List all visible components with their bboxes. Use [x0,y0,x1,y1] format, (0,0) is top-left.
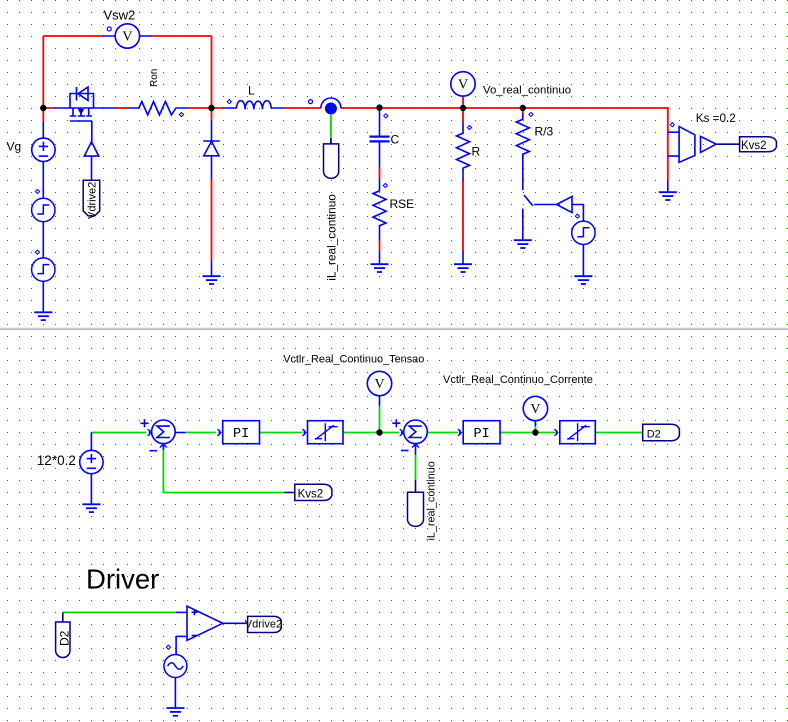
svg-text:Kvs2: Kvs2 [298,488,324,500]
svg-text:Vo_real_continuo: Vo_real_continuo [483,85,571,97]
svg-text:12*0.2: 12*0.2 [37,453,76,468]
svg-text:Vdrive2: Vdrive2 [245,619,282,631]
svg-text:iL_real_continuo: iL_real_continuo [426,461,438,540]
svg-text:Kvs2: Kvs2 [741,140,767,152]
svg-text:Vsw2: Vsw2 [104,7,136,22]
svg-text:Vg: Vg [7,140,22,154]
svg-text:Vctlr_Real_Continuo_Corrente: Vctlr_Real_Continuo_Corrente [443,374,593,386]
svg-text:D2: D2 [58,630,72,646]
svg-text:Driver: Driver [86,563,159,594]
svg-text:R/3: R/3 [535,125,554,139]
svg-text:Ron: Ron [149,69,160,87]
svg-text:iL_real_continuo: iL_real_continuo [325,194,339,281]
svg-text:Vdrive2: Vdrive2 [87,182,99,219]
svg-text:R: R [472,145,481,159]
svg-text:Ks =0.2: Ks =0.2 [696,112,736,125]
svg-text:D2: D2 [647,428,661,440]
svg-text:Vctlr_Real_Continuo_Tensao: Vctlr_Real_Continuo_Tensao [283,354,424,366]
svg-text:RSE: RSE [390,197,415,211]
svg-text:C: C [391,133,400,147]
svg-text:L: L [248,84,255,98]
